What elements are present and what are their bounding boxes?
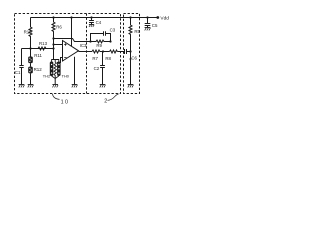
wire output row y51.5: [79, 51, 93, 53]
resistor R8: [110, 50, 118, 53]
wire op-amp V+ supply: [71, 18, 73, 47]
wire top supply rail: [31, 17, 158, 19]
ground (R5): [128, 84, 134, 86]
capacitor C6: [124, 49, 126, 54]
svg-text:IC3: IC3: [80, 43, 87, 48]
svg-text:Vdd: Vdd: [160, 16, 169, 22]
connector wedge on box 2 wire: [129, 59, 131, 63]
dashed enclosure box 2: [124, 14, 140, 94]
svg-text:R5: R5: [134, 29, 140, 34]
thermistor TH: [51, 59, 59, 61]
leader line for 2: [108, 94, 119, 101]
ground (C2): [100, 84, 106, 86]
resistor R7: [92, 50, 100, 53]
leader line for 10: [53, 94, 60, 100]
capacitor C4: [91, 18, 93, 21]
op-amp IC3: [63, 41, 79, 62]
wire op-amp V- to ground: [74, 57, 76, 85]
feedback network: resistor R9: [91, 40, 111, 43]
ground (op-amp V-): [72, 84, 78, 86]
resistor R11: [30, 49, 32, 57]
resistor R13: [38, 47, 46, 50]
wire op-amp plus input: [54, 44, 63, 46]
svg-text:R9: R9: [96, 43, 102, 48]
svg-text:C4: C4: [96, 20, 102, 25]
dashed enclosure box 10: [15, 14, 121, 94]
resistor R5 (box 2): [129, 18, 132, 85]
svg-text:2: 2: [104, 99, 107, 105]
wire node row y48.5: [22, 48, 54, 50]
svg-text:C1: C1: [15, 70, 21, 75]
ground (C4): [89, 24, 94, 26]
svg-text:10: 10: [61, 100, 70, 106]
capacitor C5: [147, 18, 149, 24]
svg-text:R7: R7: [92, 56, 98, 61]
wire feedback node: [54, 39, 91, 42]
svg-text:R13: R13: [39, 41, 48, 46]
wire op-amp minus input: [57, 58, 63, 63]
ground (C5): [145, 27, 151, 29]
svg-text:R10: R10: [24, 29, 33, 34]
svg-text:R11: R11: [34, 53, 42, 58]
svg-text:C5: C5: [152, 23, 158, 28]
capacitor C1: [21, 49, 23, 66]
node Vdd terminal: [156, 16, 159, 19]
resistor R6: [52, 18, 55, 60]
svg-text:C6: C6: [131, 55, 137, 60]
svg-text:TH0: TH0: [62, 74, 70, 79]
svg-text:R12: R12: [34, 67, 43, 72]
svg-text:TH2: TH2: [43, 74, 50, 79]
svg-text:R8: R8: [105, 56, 111, 61]
capacitor C3 (parallel branch): [91, 34, 104, 42]
ground (R12): [28, 84, 34, 86]
capacitor C2: [102, 52, 104, 66]
svg-text:C2: C2: [94, 66, 100, 71]
dashed internal divider: [86, 14, 88, 94]
junction node dots: [29, 16, 159, 53]
ground (TH): [52, 84, 58, 86]
svg-text:R6: R6: [56, 25, 62, 30]
labels: [15, 16, 169, 106]
svg-text:C3: C3: [110, 27, 116, 32]
resistor R12: [30, 63, 32, 67]
ground (C1): [19, 84, 25, 86]
resistor R10: [29, 18, 32, 49]
